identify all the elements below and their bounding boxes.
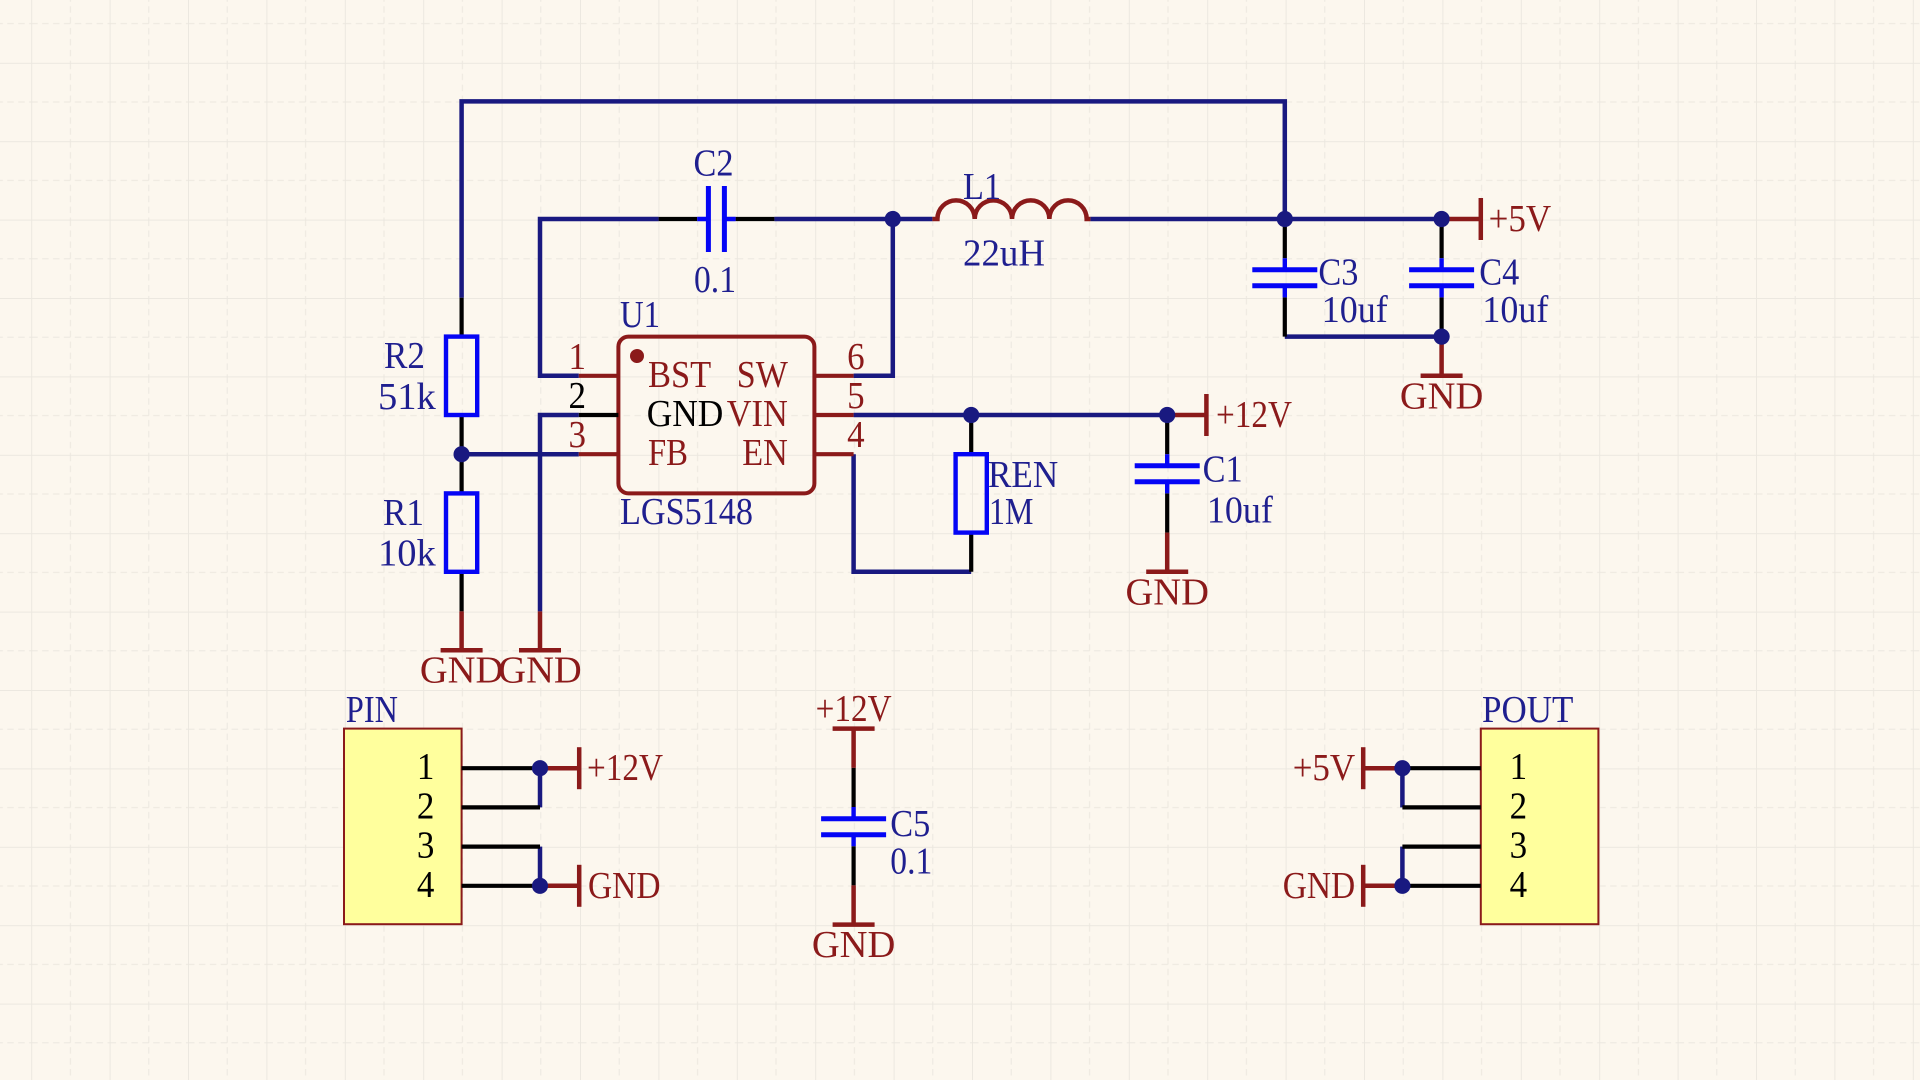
power +12V bar (VIN rail) — [1204, 394, 1209, 436]
wire: POUT pin3-pin4 tie — [1400, 847, 1405, 886]
svg-text:2: 2 — [1510, 785, 1528, 827]
ground lead under C5 — [851, 885, 856, 924]
svg-text:L1: L1 — [963, 166, 1001, 208]
ground bar (POUT) — [1361, 865, 1366, 907]
capacitor C2 0.1 — [659, 186, 775, 252]
svg-text:GND: GND — [1125, 571, 1208, 613]
wire: PIN pin1-pin2 tie — [538, 768, 543, 807]
U1 pin 2 GND stub — [579, 413, 619, 417]
svg-text:+5V: +5V — [1489, 198, 1552, 240]
svg-text:BST: BST — [648, 354, 711, 396]
svg-text:C2: C2 — [694, 143, 734, 185]
svg-text:10uf: 10uf — [1207, 490, 1273, 532]
ground GND under C5 — [812, 924, 895, 966]
svg-text:3: 3 — [569, 414, 587, 456]
svg-text:4: 4 — [417, 864, 435, 906]
capacitor C4 10uf — [1409, 219, 1474, 337]
PIN pin 4 stub — [462, 884, 540, 888]
wire: PIN pin3-pin4 tie — [538, 847, 543, 886]
junction PIN pin1 / +12V — [532, 760, 548, 776]
svg-text:3: 3 — [1510, 825, 1528, 867]
PIN pin 2 stub — [462, 805, 540, 809]
svg-text:R2: R2 — [384, 335, 425, 377]
U1 pin 5 VIN stub — [814, 413, 853, 417]
ground GND under U1 pin2 — [498, 650, 581, 692]
svg-text:3: 3 — [417, 825, 435, 867]
op-amp/regulator U1 LGS5148 body — [618, 337, 814, 494]
inductor L1 22uH — [932, 200, 1090, 219]
svg-text:10uf: 10uf — [1322, 289, 1388, 331]
svg-text:+5V: +5V — [1293, 747, 1356, 789]
capacitor C5 0.1 — [821, 768, 886, 886]
connector PIN body — [344, 729, 462, 925]
svg-text:C5: C5 — [890, 803, 930, 845]
svg-text:GND: GND — [1283, 865, 1356, 907]
U1 pin-1 marker dot — [630, 349, 644, 363]
ground GND under R1 — [420, 650, 503, 692]
resistor R2 51k — [446, 298, 477, 454]
svg-text:10k: 10k — [378, 533, 437, 575]
power +5V bar (top right) — [1479, 198, 1484, 240]
svg-text:R1: R1 — [383, 492, 424, 534]
svg-text:REN: REN — [988, 454, 1058, 496]
ground lead (PIN) — [540, 884, 579, 889]
resistor REN 1M — [956, 415, 987, 572]
wire: top loop +5V feedback — [462, 101, 1285, 297]
junction FB divider — [454, 446, 470, 462]
svg-text:22uH: 22uH — [963, 233, 1045, 275]
svg-text:FB: FB — [648, 432, 688, 474]
svg-text:EN: EN — [742, 432, 788, 474]
PIN pin 1 stub — [462, 766, 540, 770]
svg-text:C1: C1 — [1203, 449, 1243, 491]
ground GND under C1 — [1125, 571, 1208, 613]
wire: pin2 GND drop — [540, 415, 579, 611]
power +12V bar (PIN) — [577, 747, 582, 789]
wire: VIN pin5 to +12V rail — [854, 413, 1168, 418]
junction VIN rail / REN — [963, 407, 979, 423]
junction POUT pin4 / GND — [1394, 878, 1410, 894]
resistor R1 10k — [446, 454, 477, 611]
ground lead under R1 — [459, 611, 464, 650]
junction POUT pin1 / +5V — [1394, 760, 1410, 776]
wire: FB divider to pin3 — [462, 452, 579, 457]
wire: L1 right to +5V rail — [1090, 217, 1441, 222]
power +5V lead (POUT) — [1363, 766, 1402, 771]
wire: C3 bottom to C4 bottom — [1285, 334, 1442, 339]
svg-text:1: 1 — [417, 746, 435, 788]
PIN pin 3 stub — [462, 844, 540, 848]
junction VIN rail / C1 — [1159, 407, 1175, 423]
capacitor C1 10uf — [1135, 415, 1200, 533]
U1 pin 3 FB stub — [579, 452, 619, 456]
svg-text:GND: GND — [1400, 375, 1483, 417]
POUT pin 3 stub — [1402, 844, 1480, 848]
svg-text:4: 4 — [1510, 864, 1528, 906]
svg-text:1M: 1M — [989, 491, 1033, 533]
wire: C2 right to SW node — [774, 217, 892, 222]
svg-text:6: 6 — [847, 336, 865, 378]
svg-text:0.1: 0.1 — [890, 841, 932, 883]
junction +5V rail / top loop / C3 — [1277, 211, 1293, 227]
power +5V lead (top right) — [1442, 217, 1481, 222]
wire: EN pin4 loop to REN bottom — [854, 454, 972, 572]
POUT pin 1 stub — [1402, 766, 1480, 770]
junction PIN pin4 / GND — [532, 878, 548, 894]
svg-text:LGS5148: LGS5148 — [620, 491, 753, 533]
svg-text:0.1: 0.1 — [694, 259, 736, 301]
svg-text:1: 1 — [569, 336, 587, 378]
ground lead under C4 — [1439, 337, 1444, 376]
ground GND under C4 — [1400, 375, 1483, 417]
wire: SW pin6 up to node — [854, 219, 893, 376]
svg-text:4: 4 — [847, 414, 865, 456]
power +12V lead (PIN) — [540, 766, 579, 771]
POUT pin 4 stub — [1402, 884, 1480, 888]
wire: POUT pin1-pin2 tie — [1400, 768, 1405, 807]
wire: node to L1 left — [893, 217, 933, 222]
svg-text:+12V: +12V — [816, 688, 892, 730]
svg-text:51k: 51k — [378, 376, 437, 418]
svg-text:GND: GND — [420, 650, 503, 692]
U1 pin 6 SW stub — [814, 374, 853, 378]
svg-text:GND: GND — [647, 393, 724, 435]
svg-text:GND: GND — [588, 865, 661, 907]
svg-text:5: 5 — [847, 375, 865, 417]
junction +5V rail / C4 — [1434, 211, 1450, 227]
svg-text:GND: GND — [498, 650, 581, 692]
wire: C2 left to BST pin1 — [540, 219, 659, 376]
ground lead under C1 — [1165, 533, 1170, 572]
ground bar (PIN) — [577, 865, 582, 907]
svg-text:+12V: +12V — [1216, 394, 1292, 436]
svg-text:10uf: 10uf — [1482, 289, 1548, 331]
connector POUT body — [1481, 729, 1599, 925]
power +12V lead (C5) — [851, 729, 856, 768]
svg-text:2: 2 — [417, 785, 435, 827]
U1 pin 4 EN stub — [814, 452, 853, 456]
svg-text:C4: C4 — [1479, 251, 1519, 293]
svg-text:SW: SW — [737, 354, 789, 396]
ground lead under pin2 wire — [538, 611, 543, 650]
power +12V bar (C5) — [833, 726, 875, 731]
ground lead (POUT) — [1363, 884, 1402, 889]
svg-text:POUT: POUT — [1482, 689, 1573, 731]
svg-text:VIN: VIN — [727, 393, 788, 435]
junction SW node / C2 / L1 — [885, 211, 901, 227]
power +12V lead (VIN rail) — [1167, 413, 1206, 418]
svg-text:U1: U1 — [620, 294, 660, 336]
svg-text:2: 2 — [569, 375, 587, 417]
svg-text:PIN: PIN — [346, 689, 398, 731]
POUT pin 2 stub — [1402, 805, 1480, 809]
power +5V bar (POUT) — [1361, 747, 1366, 789]
svg-text:GND: GND — [812, 924, 895, 966]
capacitor C3 10uf — [1252, 219, 1317, 337]
svg-text:+12V: +12V — [587, 747, 663, 789]
junction C3-C4 bottom / GND — [1434, 329, 1450, 345]
svg-text:1: 1 — [1510, 746, 1528, 788]
U1 pin 1 BST stub — [579, 374, 619, 378]
svg-text:C3: C3 — [1318, 251, 1358, 293]
